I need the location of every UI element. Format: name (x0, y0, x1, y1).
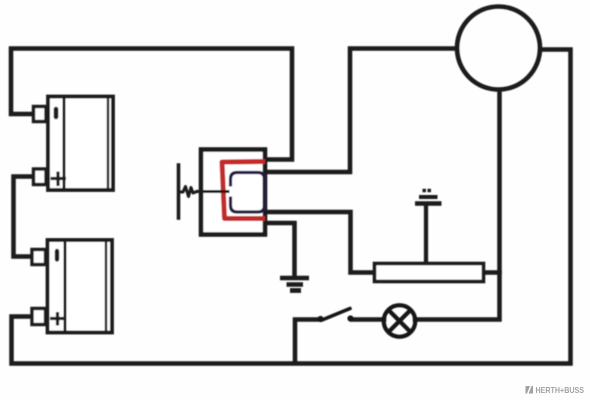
svg-text:HERTH+BUSS: HERTH+BUSS (536, 385, 585, 395)
